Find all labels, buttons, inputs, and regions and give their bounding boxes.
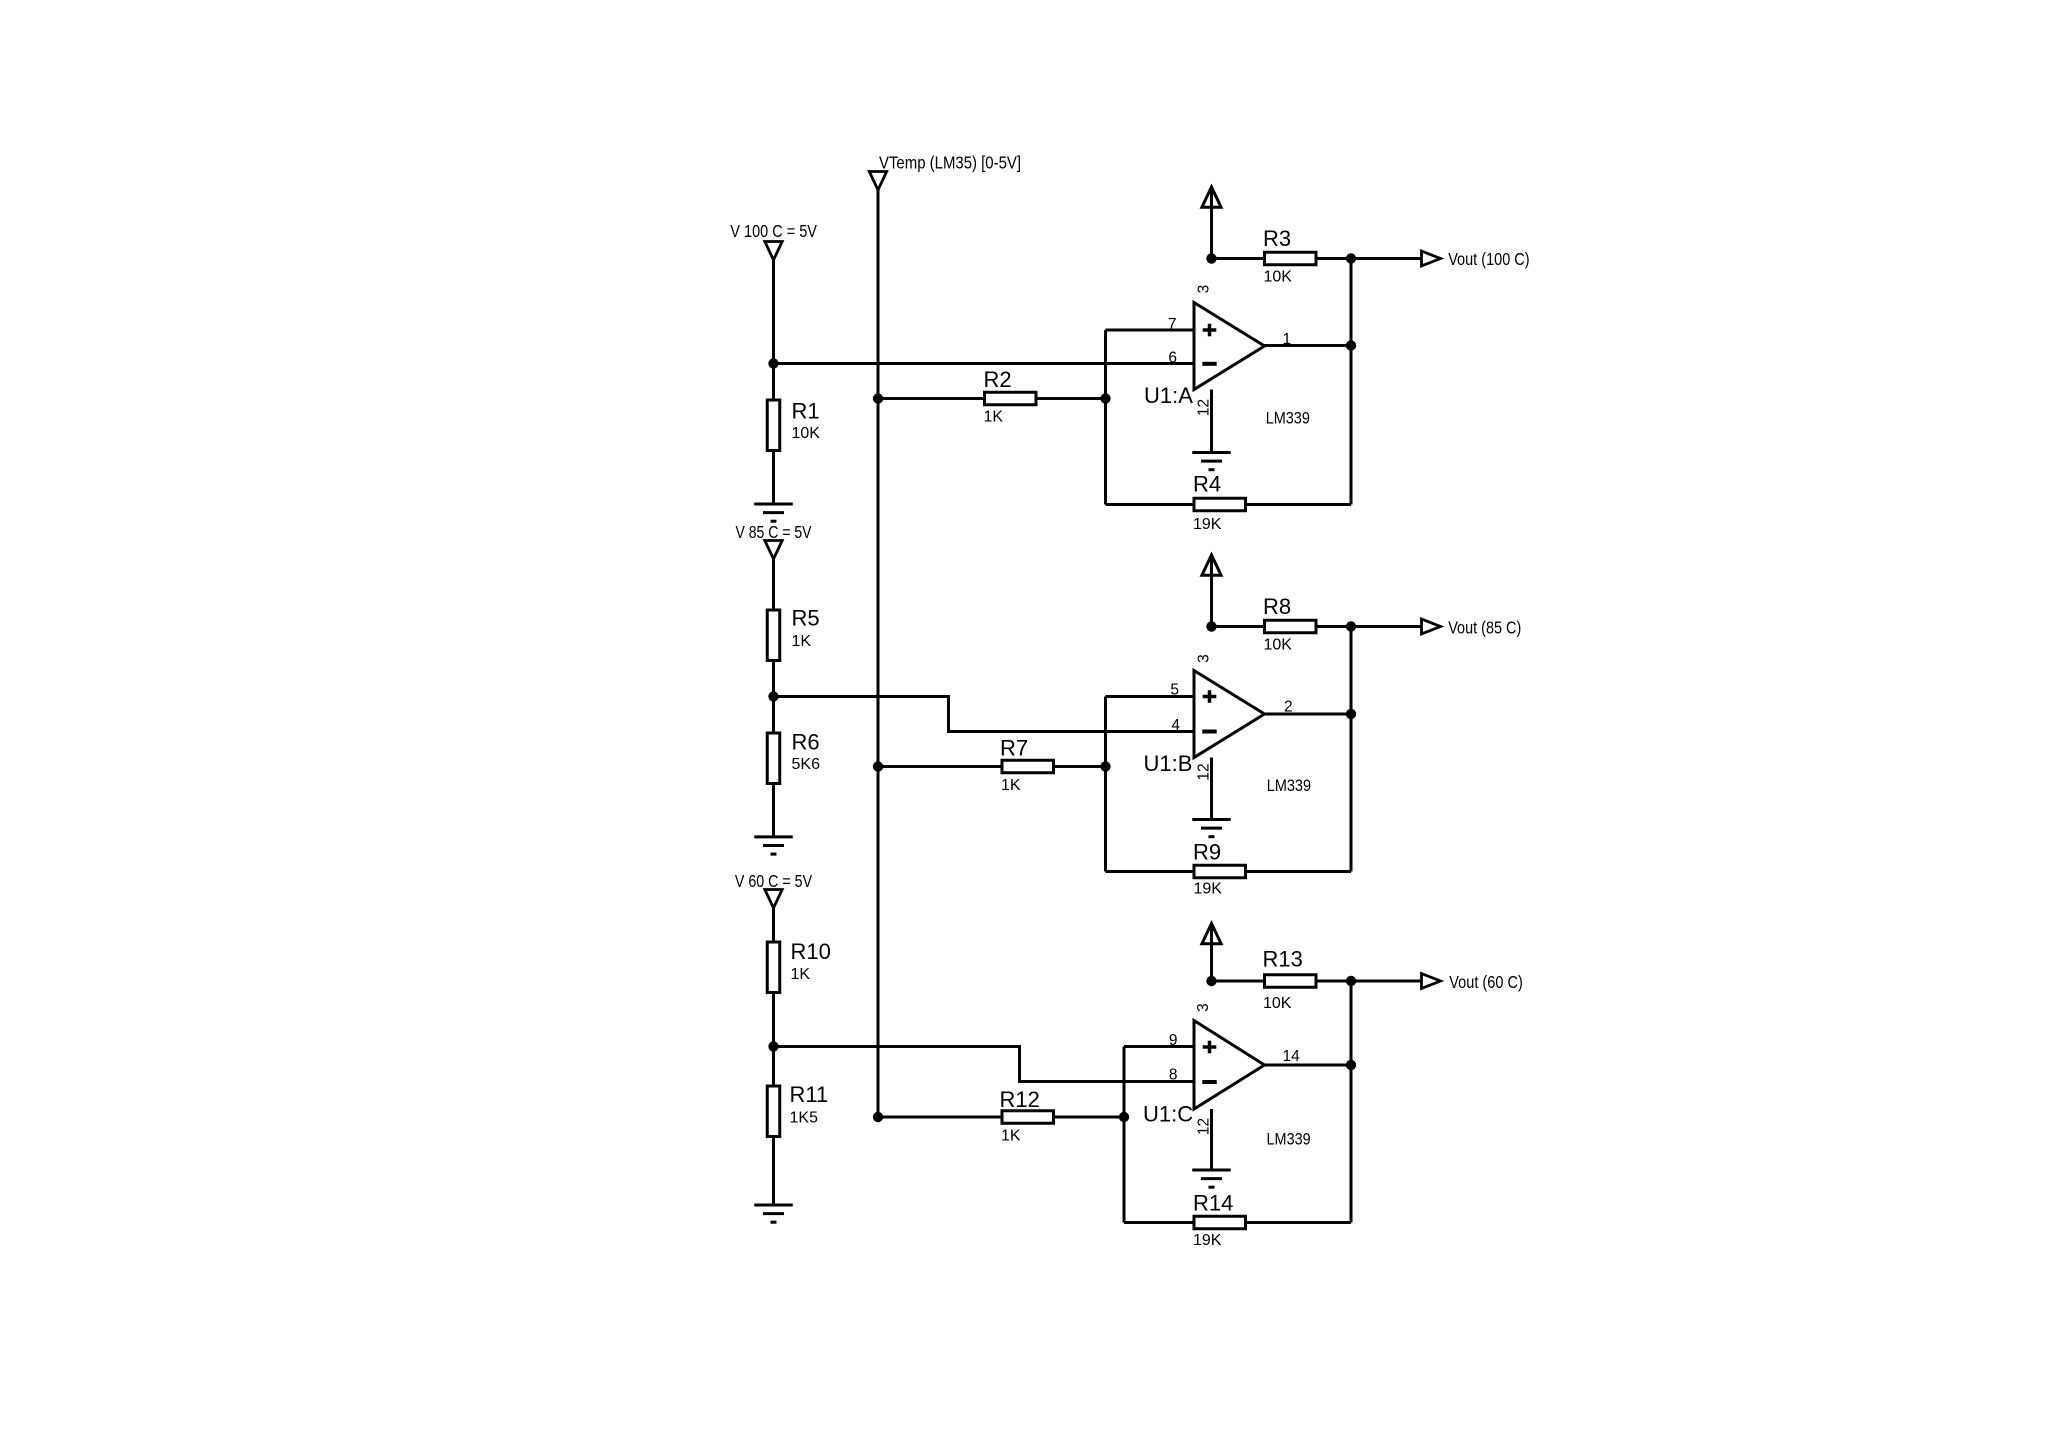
svg-text:V 100 C = 5V: V 100 C = 5V (730, 221, 817, 241)
power terminal V 60 C (765, 890, 782, 909)
wire R9 row right (1247, 870, 1351, 873)
svg-text:U1:B: U1:B (1144, 751, 1193, 776)
wire U1:C output (pin 14) (1265, 1064, 1352, 1067)
wire R5 to R6 through node B (772, 662, 775, 733)
power terminal V 100 C (765, 242, 782, 261)
resistor R10 (767, 942, 780, 993)
node A divider junction (768, 358, 778, 368)
svg-text:R9: R9 (1193, 840, 1221, 865)
wire output vertical C (1350, 981, 1353, 1223)
wire R12 right to feedback node C (1055, 1116, 1124, 1119)
output terminal Vout (85 C) (1422, 619, 1441, 634)
ground (below R11) (754, 1205, 793, 1222)
wire R12 left (VTemp to R12) (878, 1116, 1001, 1119)
power symbol VCC (U1:B) (1202, 555, 1221, 627)
resistor R11 (767, 1086, 780, 1137)
junction VCC/R3 A (1206, 253, 1216, 263)
svg-text:Vout (100 C): Vout (100 C) (1448, 249, 1529, 269)
svg-text:LM339: LM339 (1267, 776, 1311, 795)
svg-text:R7: R7 (1000, 736, 1028, 761)
wire R8 row left (1212, 625, 1264, 628)
svg-text:R4: R4 (1193, 472, 1221, 497)
ground (U1:B pin 12) (1192, 820, 1231, 837)
svg-text:12: 12 (1196, 763, 1213, 780)
wire R4 row right (1247, 503, 1351, 506)
comparator U1:B (1194, 671, 1265, 758)
wire R11 to ground (772, 1138, 775, 1206)
resistor R7 (1002, 760, 1054, 773)
junction R8/Vout B (1346, 621, 1356, 631)
junction R12/feedback C (1119, 1112, 1129, 1122)
resistor R14 (1194, 1216, 1246, 1229)
svg-text:R6: R6 (792, 730, 820, 755)
svg-text:1K: 1K (1001, 777, 1021, 794)
power symbol VCC (U1:C) (1202, 924, 1221, 982)
junction VTemp/R12 (873, 1112, 883, 1122)
power symbol VCC (U1:A) (1202, 187, 1221, 259)
wire R3 row left (1212, 257, 1264, 260)
wire to output terminal B (1351, 625, 1422, 628)
wire R8 right to output node (1318, 625, 1352, 628)
svg-text:R11: R11 (790, 1082, 829, 1107)
svg-text:R10: R10 (791, 939, 831, 964)
junction output node B (1346, 709, 1356, 719)
svg-text:12: 12 (1196, 399, 1213, 416)
svg-text:10K: 10K (1264, 269, 1293, 286)
comparator U1:A (1194, 303, 1265, 390)
junction R7/feedback B (1100, 761, 1110, 771)
resistor R3 (1265, 252, 1317, 265)
wire R14 row left (1124, 1221, 1194, 1224)
svg-text:V 60 C = 5V: V 60 C = 5V (735, 871, 812, 891)
wire R13 right to output node (1318, 980, 1352, 983)
wire V85 terminal to R5 (772, 558, 775, 609)
svg-text:1K: 1K (984, 409, 1004, 426)
wire R6 to ground (772, 785, 775, 837)
svg-text:6: 6 (1168, 350, 1177, 367)
svg-text:8: 8 (1169, 1067, 1178, 1084)
junction VCC/R8 B (1206, 621, 1216, 631)
svg-text:R14: R14 (1193, 1191, 1233, 1216)
wire R2 left (VTemp to R2) (878, 397, 983, 400)
comparator U1:C (1194, 1021, 1265, 1110)
svg-text:5K6: 5K6 (792, 756, 821, 773)
svg-text:R1: R1 (792, 399, 820, 424)
wire R1 to ground (772, 452, 775, 505)
wire V60 terminal to R10 (772, 908, 775, 942)
svg-text:VTemp (LM35) [0-5V]: VTemp (LM35) [0-5V] (879, 153, 1021, 173)
svg-text:R13: R13 (1263, 946, 1303, 971)
resistor R9 (1194, 865, 1246, 878)
svg-text:R3: R3 (1263, 226, 1291, 251)
svg-text:3: 3 (1196, 654, 1213, 663)
ground (below R6) (754, 837, 793, 854)
wire U1:A output (pin 1) (1265, 344, 1352, 347)
wire R13 row left (1212, 980, 1264, 983)
input terminal VTemp (869, 172, 886, 191)
resistor R2 (985, 392, 1037, 405)
resistor R5 (767, 610, 780, 661)
resistor R13 (1265, 975, 1317, 988)
wire pin 5 input (U1:B non-inverting) (1106, 695, 1195, 698)
wire feedback vertical A (1104, 330, 1107, 505)
junction output node C (1346, 1060, 1356, 1070)
svg-text:1: 1 (1283, 331, 1292, 348)
wire R10 to R11 through node C (772, 994, 775, 1086)
svg-text:1K: 1K (792, 633, 812, 650)
wire feedback vertical B (1104, 697, 1107, 872)
svg-text:3: 3 (1196, 285, 1213, 294)
svg-text:3: 3 (1195, 1003, 1212, 1012)
svg-text:R8: R8 (1263, 594, 1291, 619)
svg-text:U1:C: U1:C (1143, 1102, 1193, 1127)
node C divider junction (768, 1041, 778, 1051)
svg-text:14: 14 (1283, 1048, 1301, 1065)
wire U1:B output (pin 2) (1265, 713, 1352, 716)
svg-text:Vout (60 C): Vout (60 C) (1449, 972, 1523, 992)
svg-text:12: 12 (1196, 1118, 1213, 1135)
pin 12 vertical wire C (1210, 1109, 1213, 1169)
wire pin 7 input (U1:A non-inverting) (1106, 329, 1195, 332)
svg-text:9: 9 (1169, 1032, 1178, 1049)
svg-text:1K: 1K (1001, 1128, 1021, 1145)
junction R3/Vout A (1346, 253, 1356, 263)
svg-text:R2: R2 (984, 367, 1012, 392)
wire divider B to U1:B inverting (pin 4) (774, 697, 1195, 732)
wire to output terminal A (1351, 257, 1422, 260)
wire R2 right to feedback node A (1038, 397, 1106, 400)
output terminal Vout (100 C) (1422, 251, 1441, 266)
junction VTemp/R7 (873, 761, 883, 771)
svg-text:R5: R5 (792, 606, 820, 631)
svg-text:10K: 10K (1264, 637, 1293, 654)
svg-text:10K: 10K (1263, 995, 1292, 1012)
wire to output terminal C (1351, 980, 1422, 983)
svg-text:19K: 19K (1194, 881, 1223, 898)
svg-text:V 85 C = 5V: V 85 C = 5V (736, 522, 812, 542)
wire R4 row left (1106, 503, 1195, 506)
node B divider junction (768, 691, 778, 701)
svg-text:19K: 19K (1193, 516, 1222, 533)
svg-text:2: 2 (1284, 699, 1293, 716)
wire pin 9 input (U1:C non-inverting) (1124, 1045, 1194, 1048)
junction output node A (1346, 340, 1356, 350)
wire divider C to U1:C inverting (pin 8) (774, 1047, 1195, 1082)
wire output vertical A (1350, 259, 1353, 505)
junction R13/Vout C (1346, 976, 1356, 986)
junction VTemp/R2 (873, 393, 883, 403)
svg-text:LM339: LM339 (1267, 1130, 1311, 1149)
svg-text:19K: 19K (1193, 1232, 1222, 1249)
power terminal V 85 C (765, 541, 782, 560)
wire R14 row right (1247, 1221, 1351, 1224)
wire V100 terminal to node A (772, 259, 775, 399)
wire R9 row left (1106, 870, 1195, 873)
resistor R4 (1194, 498, 1246, 511)
svg-text:1K5: 1K5 (790, 1110, 819, 1127)
resistor R12 (1002, 1111, 1054, 1124)
resistor R6 (767, 733, 780, 784)
output terminal Vout (60 C) (1422, 974, 1441, 989)
svg-text:R12: R12 (1000, 1087, 1040, 1112)
svg-text:Vout (85 C): Vout (85 C) (1448, 617, 1521, 637)
svg-text:10K: 10K (792, 425, 821, 442)
wire VTemp vertical bus (877, 190, 880, 1117)
svg-text:1K: 1K (791, 966, 811, 983)
wire pin 6 input (divider A to U1:A inverting) (774, 362, 1195, 365)
wire feedback vertical C (1123, 1047, 1126, 1223)
ground (U1:C pin 12) (1192, 1170, 1231, 1187)
pin 12 vertical wire A (1210, 390, 1213, 452)
svg-text:LM339: LM339 (1266, 408, 1310, 427)
ground (below R1) (754, 504, 793, 521)
wire R7 left (VTemp to R7) (878, 765, 1001, 768)
junction R2/feedback A (1100, 393, 1110, 403)
ground (U1:A pin 12) (1192, 453, 1231, 470)
wire output vertical B (1350, 627, 1353, 872)
svg-text:U1:A: U1:A (1144, 383, 1193, 408)
resistor R1 (767, 400, 780, 451)
junction VCC/R13 C (1206, 976, 1216, 986)
wire R7 right to feedback node B (1055, 765, 1106, 768)
svg-text:5: 5 (1170, 682, 1179, 699)
svg-text:7: 7 (1168, 316, 1177, 333)
svg-text:4: 4 (1171, 717, 1180, 734)
resistor R8 (1265, 620, 1317, 633)
wire R3 right to output node (1318, 257, 1352, 260)
pin 12 vertical wire B (1210, 758, 1213, 819)
